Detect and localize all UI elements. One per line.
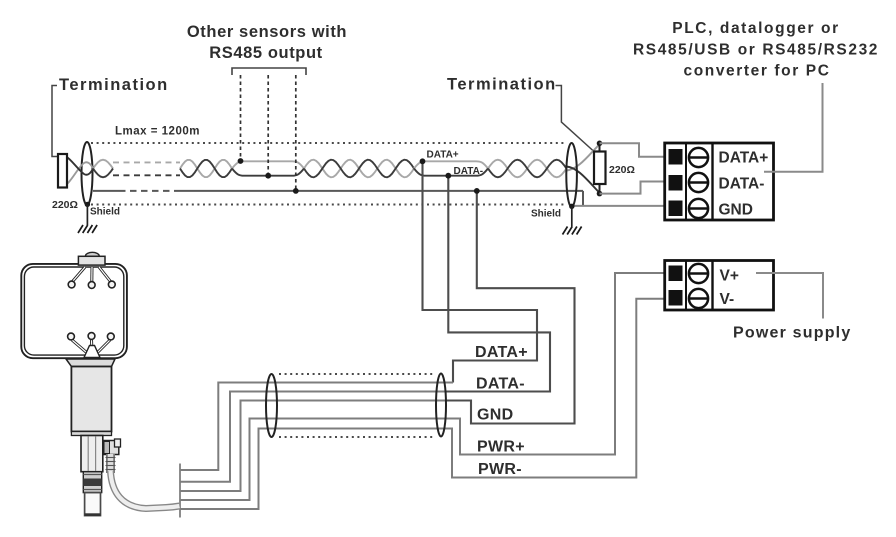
cable gland connector (103, 439, 121, 455)
sensor top cap (85, 252, 99, 256)
svg-text:Shield: Shield (90, 207, 120, 218)
sensor lower tube (81, 436, 103, 472)
resistor R1 220 ohm (left termination) (58, 154, 67, 188)
node: bus DATA- tap (445, 173, 451, 179)
node: right shield junction (569, 204, 574, 209)
pointer wire from left Termination label to resistor (52, 86, 58, 157)
svg-text:GND: GND (719, 202, 753, 219)
svg-text:V+: V+ (720, 268, 739, 285)
svg-text:DATA-: DATA- (719, 176, 765, 193)
svg-text:PWR-: PWR- (478, 461, 522, 478)
wire: GND route from bus tap to sensor (446, 191, 575, 424)
svg-text:DATA-: DATA- (476, 376, 525, 393)
wire: pair to right resistor (gray strand) (567, 145, 600, 171)
wire: pair to right resistor (dark strand) (567, 167, 600, 193)
sensor lower transducers (68, 333, 115, 340)
sensor thread section (83, 472, 101, 493)
twisted pair opened section (dashed, left) (113, 161, 180, 163)
sensor lower cone base (84, 346, 100, 358)
label: PLC / converter heading (633, 20, 879, 80)
svg-text:Shield: Shield (531, 209, 561, 220)
twisted pair opened section B with sensor taps (232, 161, 304, 168)
svg-text:converter for PC: converter for PC (683, 63, 830, 80)
sensor head outer shell (21, 264, 127, 358)
svg-text:DATA+: DATA+ (719, 150, 769, 167)
wire: sensor PWR- (wire 5) (180, 299, 666, 509)
sensor flexible conduit (106, 454, 116, 473)
node: left shield junction (85, 202, 90, 207)
svg-text:PLC, datalogger or: PLC, datalogger or (672, 20, 839, 37)
svg-text:RS485/USB or RS485/RS232: RS485/USB or RS485/RS232 (633, 42, 879, 59)
svg-text:DATA+: DATA+ (475, 344, 528, 361)
sensor cable sheath dotted outline (279, 374, 434, 437)
wire: shield to terminal GND row (572, 205, 665, 207)
wire: sensor PWR+ (wire 4) (180, 273, 666, 500)
wire: sensor DATA- (wire 2) (180, 392, 446, 482)
pointer wire from right Termination label to resistor (556, 86, 595, 152)
wire: DATA- route from bus tap to sensor (446, 176, 550, 392)
ground symbol right (563, 227, 582, 235)
svg-text:RS485 output: RS485 output (209, 44, 323, 62)
svg-text:Power supply: Power supply (733, 325, 851, 342)
svg-text:DATA-: DATA- (454, 166, 484, 177)
ground symbol left (78, 225, 97, 233)
svg-text:Termination: Termination (447, 76, 557, 94)
node: resistor bottom junction (597, 191, 603, 197)
node: resistor top junction (597, 141, 603, 147)
wire: resistor bottom to terminal DATA- (600, 182, 667, 194)
sensor upper transducer arms (73, 267, 111, 282)
sensor body cylinder (71, 367, 111, 432)
sensor mounting pole (85, 493, 101, 516)
twisted pair opened section C with device taps (414, 161, 488, 168)
label: other sensors heading (187, 23, 347, 62)
svg-text:220Ω: 220Ω (52, 199, 78, 211)
wire: right shield drain to ground (571, 206, 573, 226)
wire: DATA+ route from bus tap to sensor (423, 161, 538, 383)
terminal block J1 (DATA+/DATA-/GND) (665, 143, 774, 220)
sensor cable clamp (179, 464, 181, 518)
sensor upper transducers (68, 281, 115, 288)
dashed tap wire: other sensor DATA+ (240, 75, 242, 161)
wire: pair to left termination resistor (dark strand) (63, 155, 93, 175)
sensor cable shield cone right (ellipse) (436, 374, 446, 437)
sensor cable to clamp (111, 471, 180, 509)
wire: left shield drain to ground (86, 204, 88, 225)
svg-text:220Ω: 220Ω (609, 164, 635, 176)
wire: pair to left termination resistor (gray strand) (63, 162, 93, 186)
twisted pair wires (gray strand) (93, 160, 567, 178)
left cable end shield cone (ellipse) (82, 142, 93, 205)
svg-text:Other sensors with: Other sensors with (187, 23, 347, 41)
wire: J1 to converter (764, 83, 823, 172)
cable sheath outline (dotted) of RS485 bus (91, 143, 566, 205)
dashed tap wire: other sensor DATA- (267, 75, 269, 176)
svg-text:V-: V- (720, 291, 735, 308)
svg-text:Termination: Termination (59, 76, 169, 94)
wire: sensor DATA+ (wire 1) (180, 383, 453, 471)
wire: sensor GND (wire 3) (180, 401, 446, 492)
sensor cable shield cone left (ellipse) (266, 374, 277, 437)
resistor R2 220 ohm (right termination) (594, 152, 606, 185)
wire: J2 to power supply (756, 273, 823, 319)
terminal block J2 (V+/V-) (665, 261, 774, 311)
wire: right termination resistor stubs (599, 143, 601, 152)
svg-text:DATA+: DATA+ (427, 150, 459, 161)
junction node: other-sensor taps (238, 158, 299, 194)
sensor neck (66, 359, 115, 367)
wire: resistor top to terminal DATA+ (600, 143, 667, 157)
node: bus DATA+ tap (420, 158, 426, 164)
sensor lower transducer arms (72, 340, 110, 352)
dashed tap wire: other sensor GND (295, 75, 297, 191)
bracket under other-sensors label (232, 68, 306, 75)
right cable end shield cone (ellipse) (566, 143, 577, 207)
node: bus GND tap (474, 188, 480, 194)
twisted pair wires (dark strand) (93, 160, 567, 178)
svg-text:GND: GND (477, 407, 513, 424)
svg-text:PWR+: PWR+ (477, 439, 525, 456)
svg-text:Lmax = 1200m: Lmax = 1200m (115, 126, 200, 138)
wire: bus GND (shield drain) line (93, 191, 583, 206)
